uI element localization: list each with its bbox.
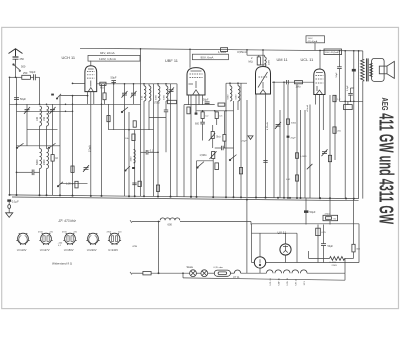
resistor x330 low xyxy=(328,155,331,161)
wire x306 bus to box xyxy=(305,198,307,225)
svg-text:411 GW und 4311 GW: 411 GW und 4311 GW xyxy=(374,113,397,224)
wire UCL top xyxy=(319,51,321,70)
capacitor 50pF xyxy=(205,102,210,104)
capacitor 50uF output xyxy=(337,67,342,69)
resistor input 250 xyxy=(22,75,31,79)
loudspeaker magnet xyxy=(379,66,387,74)
svg-text:5000: 5000 xyxy=(228,94,230,100)
resistor 1,25 xyxy=(75,181,78,188)
switch arm x58 xyxy=(56,94,61,99)
svg-text:90V, 6mA: 90V, 6mA xyxy=(201,56,214,60)
wire x358.6 column xyxy=(358,51,360,199)
switch arm x127 xyxy=(125,166,130,171)
wire input row y77 xyxy=(10,76,40,78)
svg-text:50µF: 50µF xyxy=(336,72,338,78)
wire mains vertical link xyxy=(158,222,160,274)
svg-text:MΩ: MΩ xyxy=(249,60,253,64)
svg-text:U=110V: U=110V xyxy=(17,248,27,252)
IF1 coil b xyxy=(149,86,151,101)
tube UBF11 xyxy=(187,68,205,95)
wire screen feed stub xyxy=(247,50,265,55)
resistor 1,2 x334.5 xyxy=(333,95,336,101)
capacitor 0,1 x147 xyxy=(146,150,148,155)
resistor x108.5 xyxy=(107,116,110,122)
wire mains upper xyxy=(130,220,251,223)
resistor 10k x133 xyxy=(132,134,135,141)
svg-text:1,5MΩ: 1,5MΩ xyxy=(200,154,207,157)
wire coil columns xyxy=(40,126,53,195)
wire x350.5 xyxy=(351,88,354,101)
capacitor 50pF input xyxy=(34,74,36,80)
capacitor 25uF arrow xyxy=(248,136,253,140)
wire UCH top to 110V line xyxy=(90,61,92,66)
wire column x140.5 xyxy=(140,49,142,197)
svg-text:5000: 5000 xyxy=(36,159,39,165)
wire comb x288 xyxy=(287,84,289,197)
wire UBF top to bus xyxy=(189,49,191,68)
capacitor blob x52.5 xyxy=(51,94,54,96)
wire right column x330 xyxy=(329,95,331,198)
svg-text:1,1mA: 1,1mA xyxy=(218,50,226,54)
wire det row y104.6 xyxy=(184,104,215,106)
svg-text:50µF: 50µF xyxy=(111,76,117,80)
wire x72.5 column xyxy=(72,96,74,196)
wire row y183.7 xyxy=(60,183,88,185)
svg-text:2000: 2000 xyxy=(43,159,46,165)
tube socket U127 xyxy=(39,233,52,245)
svg-text:25µF: 25µF xyxy=(242,141,248,143)
coil antenna 100 xyxy=(40,106,42,126)
wire x224.5 xyxy=(224,111,226,148)
wire comb x274 xyxy=(273,82,275,198)
IF1 coil c xyxy=(158,86,160,101)
loudspeaker basket xyxy=(372,58,385,81)
svg-text:+11mA: +11mA xyxy=(306,105,309,112)
wire row y148 xyxy=(215,147,234,149)
inner box UY xyxy=(252,233,298,262)
wire row y160.8 xyxy=(197,160,214,162)
resistor x188.5 xyxy=(187,107,190,114)
resistor x353.5 xyxy=(352,244,355,252)
wire UM top xyxy=(262,50,264,67)
svg-text:0,55mA: 0,55mA xyxy=(237,50,247,54)
wire IF1 tops xyxy=(144,84,166,86)
volume pot 5k xyxy=(211,132,214,139)
wire row y117.5 xyxy=(149,117,166,119)
svg-text:50µF: 50µF xyxy=(310,210,316,214)
svg-text:UBF 11: UBF 11 xyxy=(278,277,280,285)
svg-text:U 4711: U 4711 xyxy=(330,262,338,264)
wire coil feed xyxy=(39,77,41,104)
capacitor 20uF x288 xyxy=(287,136,290,138)
wire x330 bus to box xyxy=(329,198,331,224)
svg-text:150: 150 xyxy=(43,116,46,121)
fuse mains xyxy=(143,272,151,275)
svg-text:50kΩ: 50kΩ xyxy=(291,121,297,124)
resistor 0,5M xyxy=(215,112,218,119)
capacitor x166 xyxy=(164,110,168,112)
svg-text:3300: 3300 xyxy=(131,156,133,162)
wire primary feed xyxy=(363,51,364,199)
wire padder row y172 xyxy=(17,171,40,173)
boxed label 90V 6mA xyxy=(192,54,228,60)
wire AVC row y104 xyxy=(10,103,141,105)
lamp Skala 1 xyxy=(190,270,197,277)
wire UCH grid left y83.4 xyxy=(73,82,85,84)
pot 1,5M xyxy=(212,152,215,159)
output transformer primary xyxy=(361,59,365,80)
wire column x104.5 xyxy=(104,84,106,105)
ground xyxy=(6,213,13,218)
IF2 coil a xyxy=(230,86,232,101)
wire column x177 xyxy=(176,84,178,197)
fuse 0,25 xyxy=(316,228,321,235)
power unit box xyxy=(252,224,360,263)
svg-text:5kΩ: 5kΩ xyxy=(216,136,221,139)
wire barretter drop xyxy=(344,258,346,273)
svg-text:50pF: 50pF xyxy=(203,99,209,102)
svg-text:1MΩ: 1MΩ xyxy=(296,86,301,89)
coil osc 2000 xyxy=(47,149,49,169)
svg-text:12 V: 12 V xyxy=(304,280,306,285)
svg-text:UCL 11: UCL 11 xyxy=(270,278,272,286)
lamp pilot big xyxy=(254,257,265,268)
wire comb x297 xyxy=(296,84,298,198)
svg-text:U=220V: U=220V xyxy=(87,248,97,252)
wire column x108.5 xyxy=(108,104,110,129)
capacitor x134.5 low xyxy=(132,183,136,185)
wire x353.5 xyxy=(353,199,355,259)
svg-text:500: 500 xyxy=(21,65,26,69)
resistor 75k xyxy=(168,100,177,103)
wire UBF pins xyxy=(189,95,203,197)
wire UM pins xyxy=(256,94,266,198)
barretter zigzag xyxy=(330,257,345,261)
switch x230 xyxy=(229,155,236,161)
coil 3300 x133.5 xyxy=(134,150,136,163)
switch AF xyxy=(197,161,205,197)
svg-text:5000: 5000 xyxy=(164,94,166,100)
trimmer x324.5 xyxy=(322,149,328,156)
boxed label 110V 1,6mA xyxy=(88,55,140,61)
svg-text:UCH 11: UCH 11 xyxy=(62,55,76,60)
wire x339.4 xyxy=(338,51,340,102)
wire row y129.7 left xyxy=(27,129,58,131)
RC network 4700/60 xyxy=(323,215,338,220)
wire x318 xyxy=(317,225,319,263)
capacitor 0,1 det xyxy=(221,146,223,151)
wire x246.9 drop xyxy=(246,200,248,274)
capacitor 50uF smoothing xyxy=(321,244,326,246)
trimmer x86 xyxy=(83,165,89,172)
resistor 7k det xyxy=(218,103,225,106)
electrolytic blob xyxy=(352,69,356,72)
wire row y101.3 xyxy=(339,100,362,102)
antenna xyxy=(9,49,23,57)
switch x60 xyxy=(57,182,63,187)
lamp Skala 2 xyxy=(201,270,208,277)
resistor 20k x334.5 xyxy=(333,127,336,133)
tube UM11 xyxy=(256,67,271,95)
wire comb x300.5 xyxy=(300,110,302,198)
svg-text:600: 600 xyxy=(168,223,173,227)
output transformer secondary xyxy=(370,63,373,76)
svg-text:ZF: 473 kHz: ZF: 473 kHz xyxy=(58,219,77,223)
resistor 3+3k xyxy=(103,93,106,100)
resistor 0,1M x296 xyxy=(296,153,299,159)
capacitor AF xyxy=(287,80,289,84)
capacitor 50uF AVC xyxy=(14,98,19,100)
tube socket U150 xyxy=(63,233,76,245)
svg-text:250: 250 xyxy=(23,71,28,75)
wire x60 column xyxy=(59,96,61,196)
wire column x134.7 xyxy=(134,130,136,197)
wire x353.8 xyxy=(353,51,355,199)
wire chassis bus line1 xyxy=(10,195,359,199)
svg-text:MΩ: MΩ xyxy=(100,86,104,89)
svg-text:20µF: 20µF xyxy=(291,138,297,140)
svg-text:50pF: 50pF xyxy=(30,70,36,74)
box component below row xyxy=(344,105,353,110)
svg-text:(75k): (75k) xyxy=(154,102,160,105)
svg-text:UBF 11: UBF 11 xyxy=(165,58,178,63)
resistor x72.5 xyxy=(71,166,74,172)
wire x212.7 x216.7 xyxy=(213,119,217,149)
wire AVC feed y95.6 xyxy=(60,95,88,97)
wire columns x335 xyxy=(334,95,336,160)
switch band 1 xyxy=(16,143,23,148)
heater UY11 hump xyxy=(234,270,240,273)
trimmer x278 xyxy=(275,122,281,129)
rectifier tube UY11 xyxy=(280,244,291,255)
boxed label 110V 42mA xyxy=(324,49,342,55)
padder capacitor xyxy=(32,170,34,176)
svg-text:50µF: 50µF xyxy=(328,245,334,248)
wire return line xyxy=(183,273,345,280)
wire IF1 bottoms xyxy=(144,84,171,197)
wire UY stubs xyxy=(285,233,287,262)
switch antenna xyxy=(13,64,21,72)
wire column x184 xyxy=(183,105,185,197)
svg-text:UM 11: UM 11 xyxy=(277,57,288,62)
wire column x153.5 xyxy=(153,84,155,197)
wire pilot feed xyxy=(259,233,261,257)
capacitor 0,1uF mains to chassis xyxy=(7,199,11,201)
wire left rail a xyxy=(9,77,11,195)
resistor on HT bus xyxy=(221,48,228,52)
wire comb x280 xyxy=(279,110,281,198)
wire column x129 xyxy=(128,112,130,196)
choke 600 upper xyxy=(160,218,180,220)
wire x323.5 xyxy=(323,225,325,263)
tube socket U240 xyxy=(108,233,121,245)
wire antenna drop xyxy=(15,63,17,78)
wire trim verticals xyxy=(27,104,53,146)
wire x213.2 low xyxy=(212,159,214,198)
resistor 0,02M x296 xyxy=(296,175,299,181)
coil 100V xyxy=(265,57,267,67)
svg-text:42(+4)mA: 42(+4)mA xyxy=(308,40,318,43)
svg-text:4,35mA: 4,35mA xyxy=(266,122,269,130)
resistor 1/2M xyxy=(215,163,219,170)
tube socket U220 xyxy=(86,233,99,245)
wire comb x284 xyxy=(283,82,285,198)
svg-text:250: 250 xyxy=(20,57,25,61)
capacitor 0,1uF out xyxy=(348,93,353,95)
svg-text:110V, 42(4)mA: 110V, 42(4)mA xyxy=(325,51,339,54)
resistor anode xyxy=(100,82,106,85)
svg-text:600: 600 xyxy=(195,122,200,125)
svg-text:U=127V: U=127V xyxy=(40,248,50,252)
svg-text:5000: 5000 xyxy=(156,94,158,100)
wire pilot drop xyxy=(259,268,261,273)
IF1 coil d xyxy=(166,86,168,101)
trimmer capacitor osc xyxy=(50,107,56,114)
svg-text:AEG: AEG xyxy=(380,98,390,111)
svg-text:Widerstand 9 Ω: Widerstand 9 Ω xyxy=(52,262,73,266)
wire row y152.3 xyxy=(141,151,159,153)
svg-text:1,25: 1,25 xyxy=(66,183,71,186)
bead component xyxy=(8,205,11,209)
IF1 coil a xyxy=(144,86,146,101)
wire HT bus top xyxy=(80,48,363,51)
capacitor antenna 250 xyxy=(13,57,19,63)
wire column x113.7 xyxy=(113,81,115,130)
trimmer capacitor IF b xyxy=(131,91,137,98)
svg-text:Skala: Skala xyxy=(187,266,194,269)
capacitor 600 xyxy=(200,122,205,124)
resistor 2M xyxy=(257,57,260,65)
wire UCL pins xyxy=(316,95,324,199)
coil antenna 150 xyxy=(47,106,49,126)
wire 2M bottoms xyxy=(257,55,264,65)
wire UCH pins xyxy=(88,92,94,196)
transformer core xyxy=(367,58,369,81)
wire row y129.7 xyxy=(109,129,154,131)
tube UCL11 xyxy=(314,69,325,95)
svg-text:0,1µF: 0,1µF xyxy=(347,85,349,91)
svg-text:0,1µF: 0,1µF xyxy=(12,199,19,203)
svg-text:UCH 11: UCH 11 xyxy=(287,277,289,285)
resistor 1M AF xyxy=(295,81,303,84)
wire chassis bus line2 xyxy=(12,197,359,201)
wire det row y110.8 xyxy=(197,110,234,112)
resistor 10k osc xyxy=(51,155,54,162)
wire barretter row xyxy=(309,251,354,258)
wire drop x251 xyxy=(250,222,252,225)
wire comb x305 x310 xyxy=(305,105,310,199)
resistor 2k xyxy=(223,135,226,142)
svg-text:0,1MΩ: 0,1MΩ xyxy=(300,155,307,158)
thermal cutout xyxy=(214,270,230,276)
switch band 2 xyxy=(48,143,55,148)
heater chain humps xyxy=(266,270,307,273)
wire columns x124.5 x133.5 xyxy=(125,84,134,196)
coil osc 5000 xyxy=(40,149,42,169)
svg-text:50µF: 50µF xyxy=(20,97,26,101)
tube socket U110 xyxy=(16,233,29,245)
svg-text:6,3V oder: 6,3V oder xyxy=(214,266,224,269)
wire ground drop xyxy=(8,202,10,213)
resistor 50k x288 xyxy=(287,119,290,125)
wire row y111.3 xyxy=(17,110,73,112)
capacitor blob x196 xyxy=(195,113,198,115)
resistor 0,2M xyxy=(201,112,204,119)
svg-text:5000: 5000 xyxy=(236,94,238,100)
wire x345.2 xyxy=(344,51,346,199)
capacitor 50uF x113.7 xyxy=(111,81,116,83)
svg-text:220Ω: 220Ω xyxy=(332,264,338,267)
trimmer x171 xyxy=(168,87,174,94)
resistor 350 xyxy=(133,121,136,127)
boxed label 110V 42+4mA upper xyxy=(306,36,325,43)
resistor x241 xyxy=(239,168,242,174)
wire lamp line xyxy=(130,272,266,275)
wire anode row y83.8 xyxy=(97,83,177,85)
svg-text:110V,: 110V, xyxy=(308,38,314,40)
resistor x139.5 low xyxy=(138,181,141,186)
wire x202.6 xyxy=(202,111,204,141)
svg-text:U=150V: U=150V xyxy=(64,248,74,252)
IF2 coil b xyxy=(238,86,240,101)
wire left rail b xyxy=(16,77,18,195)
wire column x101.5 xyxy=(101,84,103,196)
svg-text:100V: 100V xyxy=(269,59,271,65)
tube UCH11 xyxy=(85,66,97,92)
wire heater line tail xyxy=(307,272,345,274)
svg-text:UCL 11: UCL 11 xyxy=(301,57,314,62)
svg-text:100: 100 xyxy=(36,116,39,121)
resistor x158 low xyxy=(156,185,159,191)
junction dots chassis bus xyxy=(9,194,11,196)
capacitor 50uF reservoir xyxy=(304,210,308,213)
svg-text:94V, 22mA: 94V, 22mA xyxy=(100,51,115,55)
pot arrow x309 xyxy=(307,164,313,169)
wire IF2 stubs xyxy=(226,83,247,197)
capacitor x265.5 xyxy=(263,161,267,163)
svg-text:U=240V: U=240V xyxy=(108,248,118,252)
switch IF xyxy=(121,107,128,113)
loudspeaker cone xyxy=(387,61,394,78)
svg-text:110V, 1,6mA: 110V, 1,6mA xyxy=(99,57,116,61)
wire band switch row y146 xyxy=(17,145,61,147)
wire x166 lower xyxy=(165,112,167,153)
capacitor blob x133.5 xyxy=(132,167,135,169)
wire AF coupling row y82.2 xyxy=(272,81,314,83)
svg-text:4700: 4700 xyxy=(325,213,331,215)
trimmer capacitor ant xyxy=(24,107,30,114)
wire IF2 row y83.2 xyxy=(226,82,247,84)
trimmer capacitor IF a xyxy=(122,91,128,98)
